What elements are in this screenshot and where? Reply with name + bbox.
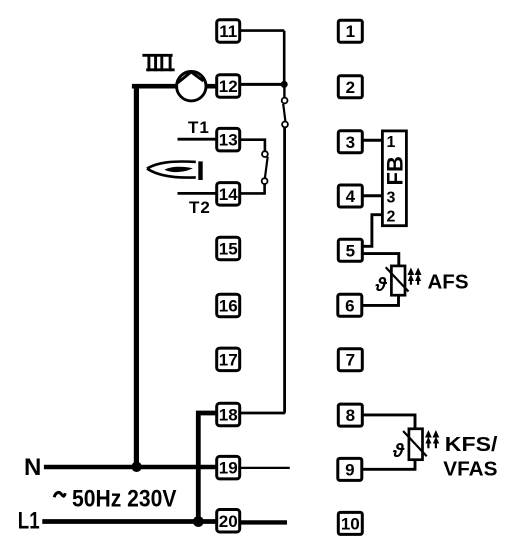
wire thick vertical pump line to N [134,84,139,466]
svg-text:11: 11 [219,22,237,41]
burner flame symbol [147,161,203,180]
svg-text:T2: T2 [189,198,211,217]
wire FB pin2 to terminal5 [362,215,383,247]
svg-text:10: 10 [341,514,360,533]
svg-text:5: 5 [346,241,355,260]
terminal 6 [338,294,362,316]
svg-text:ϑ: ϑ [392,441,405,462]
svg-text:T1: T1 [188,118,210,137]
svg-text:17: 17 [219,350,238,369]
wire thick corner to pump [132,84,177,89]
terminal 12 [217,75,240,98]
svg-text:8: 8 [346,406,355,425]
sensor KFS thermistor [403,429,427,460]
terminal 13 [217,128,240,151]
wire terminal11 to node A [240,29,285,32]
svg-text:VFAS: VFAS [443,457,497,480]
svg-text:9: 9 [345,460,354,479]
terminal 10 [338,512,362,534]
wire terminal3 to FB pin1 [362,139,382,142]
svg-text:3: 3 [346,133,355,152]
arrows AFS [408,268,422,285]
svg-text:16: 16 [219,297,238,316]
svg-text:L1: L1 [18,508,40,535]
wire terminal19 stub [240,467,290,469]
terminal 18 [217,403,240,426]
wire sensor AFS to terminal6 [361,295,398,305]
svg-text:N: N [24,454,41,481]
switch S2 [262,151,268,184]
radiator symbol [142,54,174,71]
wire switch S2 to terminal14 [240,184,265,193]
terminal 14 [217,183,240,206]
arrows KFS [425,430,439,448]
sensor AFS thermistor [386,266,409,295]
svg-text:1: 1 [346,22,355,41]
wire T1 stub [178,138,217,141]
wire pump to terminal12 [206,84,217,89]
wire vertical node A drop [283,31,286,85]
terminal 17 [217,348,240,371]
wire N line [44,465,217,470]
connector FB box [382,131,406,226]
svg-text:15: 15 [219,240,238,259]
svg-text:14: 14 [219,185,238,204]
svg-text:18: 18 [219,406,238,425]
wire node A to switch S1 [283,84,285,97]
wire sensor KFS to terminal9 [361,460,415,470]
terminal 9 [338,458,362,480]
terminal 2 [338,76,362,98]
svg-text:4: 4 [346,187,356,206]
terminal 20 [217,510,240,533]
wire terminal5 to sensor AFS [362,254,399,266]
wire T2 stub [178,192,218,195]
label 50Hz 230V [54,492,65,497]
svg-text:1: 1 [387,134,396,151]
svg-text:2: 2 [387,208,396,225]
pump M1 [177,72,206,101]
wire terminal4 to FB pin3 [361,194,382,197]
wire L1 line [42,519,216,524]
svg-text:20: 20 [219,512,238,531]
terminal 5 [338,239,362,261]
svg-text:12: 12 [219,77,238,96]
svg-text:ϑ: ϑ [375,275,388,296]
terminal 3 [338,131,362,153]
wire terminal8 to sensor KFS [362,415,415,429]
svg-text:6: 6 [345,296,354,315]
wire terminal13 to switch S2 [240,140,265,152]
wire terminal12 to node A [240,83,285,86]
wire switch S1 to terminal18 [240,127,285,413]
svg-text:KFS/: KFS/ [445,433,498,456]
svg-text:7: 7 [346,351,355,370]
svg-text:AFS: AFS [428,270,469,293]
wire terminal18 to L1 [198,413,217,522]
terminal 15 [217,237,240,260]
svg-text:13: 13 [219,131,238,150]
junction N dot [131,462,141,472]
switch S1 [282,98,288,128]
svg-text:3: 3 [387,189,396,206]
svg-text:19: 19 [219,459,238,478]
junction node A [281,81,288,88]
svg-text:2: 2 [346,78,355,97]
terminal 7 [338,349,362,371]
terminal 16 [217,294,240,317]
svg-text:50Hz 230V: 50Hz 230V [72,485,177,512]
terminal 8 [338,404,362,426]
terminal 1 [338,20,362,42]
svg-text:FB: FB [383,156,408,185]
junction L1 dot [193,516,204,527]
terminal 19 [217,456,240,479]
wire terminal20 stub [240,520,287,524]
terminal 11 [217,20,240,43]
terminal 4 [338,185,362,207]
